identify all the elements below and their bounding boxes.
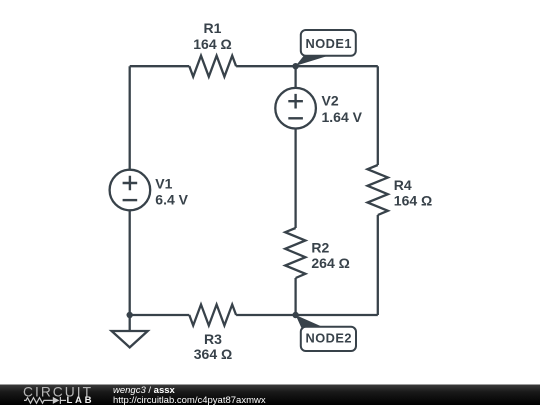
svg-text:R2: R2 [311, 239, 329, 255]
wire right vertical lower segment [377, 215, 379, 315]
voltage source V2 [275, 88, 316, 129]
junction node at NODE2 [292, 312, 298, 318]
wire middle bottom segment [294, 278, 296, 315]
node NODE2 callout [296, 315, 356, 351]
wire middle top segment [294, 66, 296, 88]
resistor R1 [189, 56, 236, 77]
wire middle V2-to-R2 segment [294, 129, 296, 229]
svg-text:164 Ω: 164 Ω [193, 36, 231, 52]
resistor R2 [285, 228, 305, 278]
svg-text:http://circuitlab.com/c4pyat87: http://circuitlab.com/c4pyat87axmwx [113, 395, 266, 405]
wire left vertical lower segment [129, 210, 131, 315]
resistor R3 [189, 305, 236, 326]
voltage source V1 [110, 170, 151, 211]
svg-text:NODE1: NODE1 [306, 36, 352, 51]
node NODE1 callout [296, 30, 356, 66]
svg-text:NODE2: NODE2 [306, 330, 352, 345]
svg-text:V2: V2 [322, 93, 339, 109]
wire bottom-right horizontal segment [236, 314, 378, 316]
svg-text:364 Ω: 364 Ω [194, 346, 232, 362]
svg-text:6.4 V: 6.4 V [155, 192, 188, 208]
wire top-left horizontal segment [130, 65, 190, 67]
svg-text:R1: R1 [204, 20, 222, 36]
junction node at NODE1 [292, 63, 298, 69]
svg-text:264 Ω: 264 Ω [311, 255, 349, 271]
svg-text:1.64 V: 1.64 V [322, 109, 363, 125]
wire bottom-left horizontal segment [130, 314, 190, 316]
svg-text:164 Ω: 164 Ω [394, 193, 432, 209]
footer bar [0, 385, 540, 405]
junction node at ground [127, 312, 133, 318]
resistor R4 [368, 165, 388, 215]
svg-text:V1: V1 [155, 176, 172, 192]
svg-text:R4: R4 [394, 177, 412, 193]
svg-text:LAB: LAB [67, 395, 92, 405]
CircuitLab logo resistor-diode art [24, 397, 66, 404]
wire top-right horizontal segment [236, 65, 378, 67]
wire right vertical upper segment [377, 66, 379, 165]
svg-text:R3: R3 [204, 331, 222, 347]
ground [112, 315, 148, 347]
wire left vertical upper segment [129, 66, 131, 170]
